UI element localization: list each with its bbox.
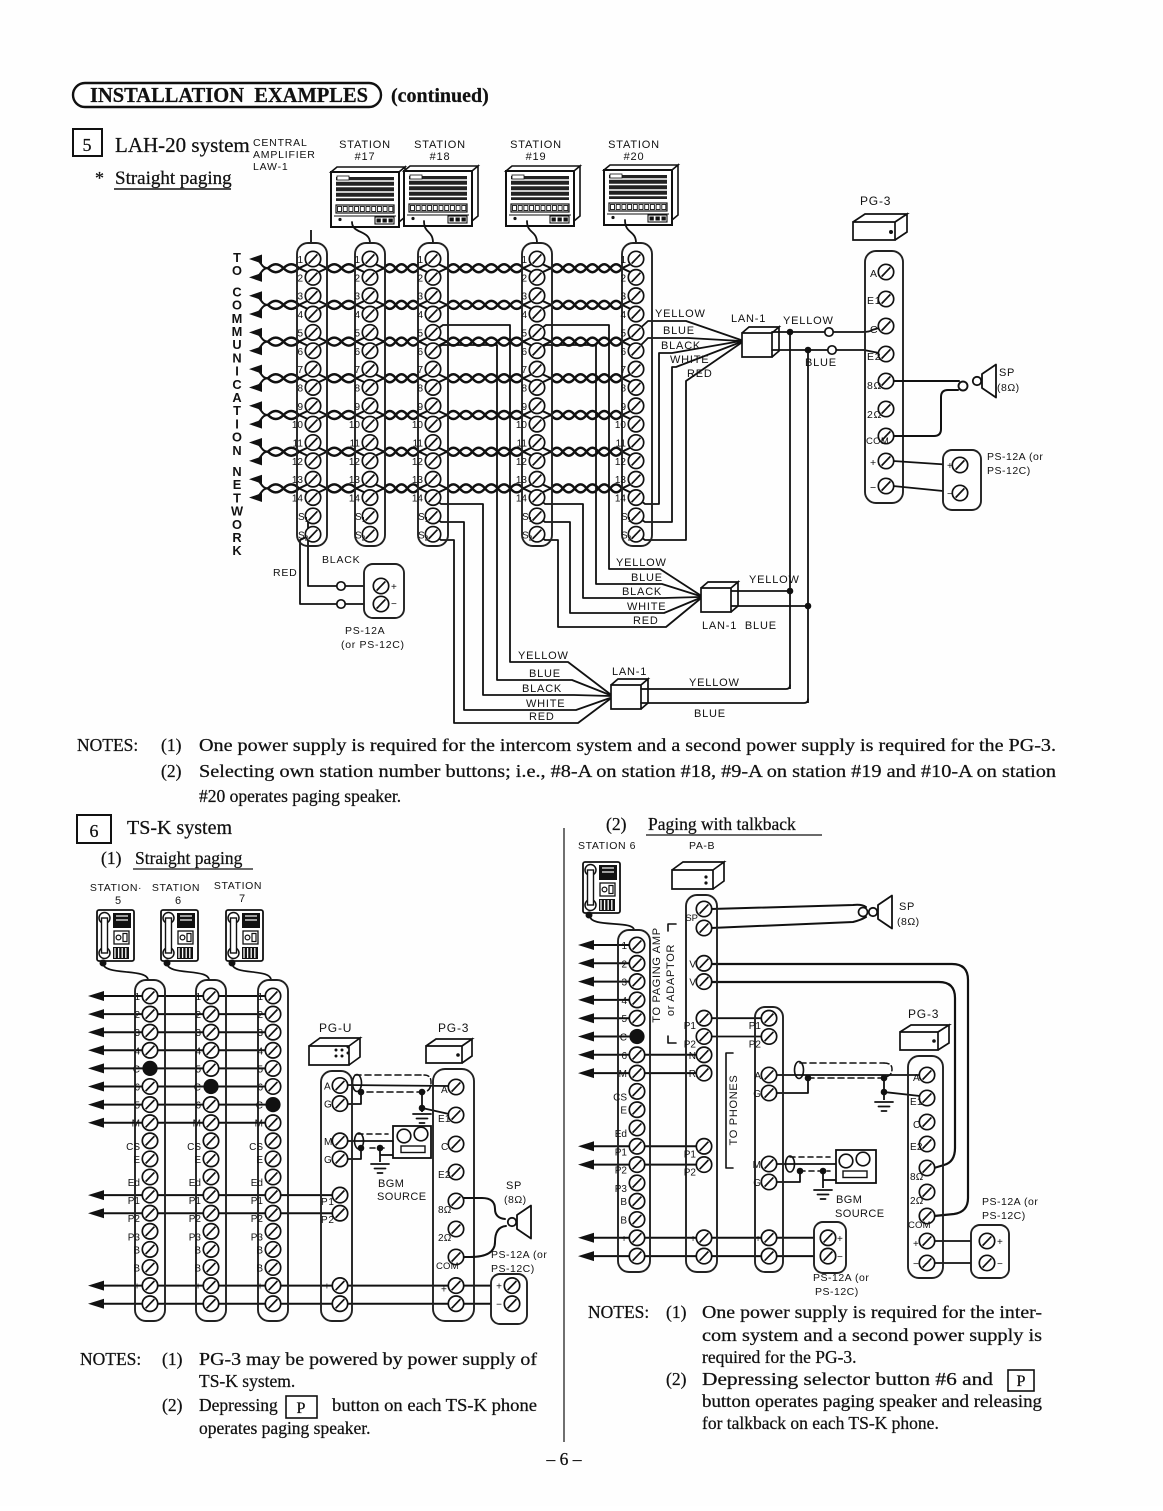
terminal minus station6 right — [621, 1248, 645, 1263]
svg-text:B: B — [256, 1245, 263, 1256]
svg-text:(1): (1) — [101, 848, 122, 868]
terminal 2 strip1 — [297, 270, 320, 285]
svg-text:2Ω: 2Ω — [867, 409, 882, 421]
terminal 5 strip5 — [620, 325, 643, 340]
terminal CS station7 — [249, 1133, 281, 1153]
svg-text:2Ω: 2Ω — [910, 1196, 924, 1207]
terminal 8 strip4 — [521, 380, 544, 395]
svg-text:5: 5 — [620, 328, 626, 339]
terminal PG-3-right 2&# — [910, 1184, 935, 1207]
arrow to communication network row 3 — [249, 291, 268, 305]
terminal 6 strip5 — [620, 343, 643, 358]
wire LAN-1 top blue output to PG-3 E2 — [772, 350, 879, 353]
svg-text:2: 2 — [621, 959, 627, 970]
svg-text:8Ω: 8Ω — [867, 380, 882, 392]
svg-text:M: M — [255, 1119, 263, 1130]
terminal PG-3-right COM — [908, 1208, 935, 1231]
svg-text:E: E — [133, 1155, 140, 1166]
terminal E station5 — [133, 1151, 157, 1166]
svg-text:11: 11 — [350, 439, 361, 450]
wire PA-B P2 to adaptor P2 — [711, 1036, 762, 1038]
svg-text:−: − — [837, 1252, 844, 1263]
terminal 1 strip2 — [354, 251, 377, 266]
svg-text:P1: P1 — [749, 1021, 762, 1032]
svg-text:P1: P1 — [189, 1196, 202, 1207]
svg-text:P2: P2 — [128, 1214, 141, 1225]
label SP (8 ohm) section 5 — [997, 367, 1020, 394]
svg-text:1: 1 — [620, 255, 626, 266]
arrow to communication network row 2 — [249, 268, 268, 282]
vertical label TO PHONES — [726, 1053, 740, 1168]
svg-text:1: 1 — [521, 255, 527, 266]
terminal adaptor P2 — [749, 1029, 777, 1051]
svg-text:or ADAPTOR: or ADAPTOR — [665, 944, 677, 1016]
svg-text:P1: P1 — [128, 1196, 141, 1207]
svg-text:−: − — [870, 482, 877, 494]
terminal 14 strip3 — [412, 490, 441, 505]
wire blue bus vertical — [807, 350, 809, 703]
svg-text:(continued): (continued) — [391, 85, 489, 107]
svg-text:+: + — [947, 461, 954, 472]
svg-text:E1: E1 — [438, 1114, 451, 1125]
wire twisted pair terminals 11-12 — [268, 447, 633, 457]
terminal 11 strip1 — [293, 435, 321, 450]
junction box LAN-1 middle — [701, 582, 738, 612]
wire PA-B P1 to adaptor P1 — [711, 1017, 762, 1019]
terminal strip paging adaptor section2 — [755, 1007, 783, 1272]
arrow to communication network row 1 — [249, 255, 268, 269]
title stadium box INSTALLATION EXAMPLES — [73, 83, 381, 107]
svg-text:+: + — [441, 1285, 447, 1296]
station unit #18 — [404, 166, 478, 226]
terminal 3 strip3 — [417, 288, 440, 303]
terminal 5 strip1 — [297, 325, 320, 340]
label PS-12A section2 right — [982, 1196, 1038, 1222]
svg-text:13: 13 — [349, 475, 361, 486]
wire strip4 terminal 5 yellow to LAN-1 middle — [537, 325, 700, 595]
svg-text:NOTES:: NOTES: — [588, 1302, 649, 1322]
terminal minus station5 — [134, 1296, 158, 1311]
vertical label TO PAGING AMP or ADAPTOR — [651, 924, 677, 1043]
terminal S2 strip1 — [298, 527, 321, 543]
svg-text:1: 1 — [417, 255, 423, 266]
svg-text:P2: P2 — [684, 1168, 697, 1179]
terminal B station6 — [194, 1260, 218, 1275]
svg-text:M: M — [619, 1069, 627, 1080]
svg-text:M: M — [132, 1119, 140, 1130]
svg-text:4: 4 — [257, 1046, 263, 1057]
svg-text:P1: P1 — [321, 1197, 335, 1208]
svg-text:3: 3 — [297, 292, 303, 303]
svg-text:8: 8 — [620, 383, 626, 394]
svg-text:PS-12A: PS-12A — [345, 625, 385, 637]
svg-text:WHITE: WHITE — [526, 698, 565, 710]
wire PG-3 8ohm to speaker — [893, 380, 959, 382]
svg-text:+: + — [621, 1234, 627, 1245]
wire cord station #20 to strip 5 — [625, 220, 636, 243]
telephone station 6 right — [583, 862, 620, 919]
terminal S1 strip3 — [418, 508, 441, 524]
svg-text:B: B — [133, 1245, 140, 1256]
terminal PA-B SP — [685, 901, 711, 924]
terminal C station5 — [133, 1061, 158, 1076]
wire twisted pair terminals 9-10 — [268, 410, 633, 420]
svg-text:14: 14 — [412, 494, 424, 505]
wire LAN-1 middle yellow output — [731, 590, 790, 592]
terminal P2 station5 — [128, 1206, 158, 1226]
terminal 10 strip1 — [292, 416, 321, 431]
terminal 11 strip3 — [413, 435, 441, 450]
svg-text:4: 4 — [417, 310, 423, 321]
svg-text:10: 10 — [292, 420, 304, 431]
label SP 8ohm section2 — [897, 901, 920, 928]
terminal 1 strip5 — [620, 251, 643, 266]
svg-text:SP: SP — [685, 913, 698, 924]
terminal 5 station5 — [134, 1097, 157, 1112]
svg-text:P1: P1 — [615, 1147, 628, 1158]
power supply PS-12A (section 5 left) — [364, 564, 404, 618]
svg-text:COM: COM — [436, 1261, 459, 1272]
terminal adaptor + — [755, 1230, 777, 1245]
terminal P3 station5 — [128, 1224, 158, 1244]
terminal 14 strip1 — [292, 490, 321, 505]
wire cord station 6 to strip B — [167, 963, 209, 980]
terminal M station6 — [193, 1115, 219, 1130]
wire LAN-1 top yellow output to PG-3 C — [772, 328, 879, 332]
svg-text:P2: P2 — [251, 1214, 264, 1225]
wire cord station #18 to strip 3 — [424, 221, 433, 243]
svg-text:BLACK: BLACK — [322, 554, 360, 566]
svg-text:13: 13 — [516, 475, 528, 486]
svg-text:5: 5 — [134, 1101, 140, 1112]
wire cord station #19 to strip 4 — [527, 221, 537, 243]
terminal PG-3 P section5 — [878, 453, 893, 468]
arrow to communication network row 9 — [249, 401, 268, 415]
svg-text:G: G — [753, 1178, 761, 1189]
arrow to communication network row 11 — [249, 438, 268, 452]
terminal 7 strip4 — [521, 361, 544, 376]
notes section 2 — [588, 1302, 1042, 1433]
terminal 6 strip4 — [521, 343, 544, 358]
labels STATION 5 6 7 — [90, 880, 262, 907]
terminal strip PG-3 section6 — [433, 1069, 474, 1321]
terminal PG-3-left 2&# — [438, 1221, 464, 1244]
terminal PG-3 O2 section5 — [878, 401, 893, 416]
terminal 5 station6 — [195, 1061, 218, 1076]
wire adaptor G to shield section2 — [776, 1079, 808, 1093]
svg-text:A: A — [324, 1082, 331, 1093]
arrow to communication network row 5 — [249, 328, 268, 342]
terminal P3 station7 — [251, 1224, 281, 1244]
svg-text:3: 3 — [134, 1028, 140, 1039]
terminal 2 strip2 — [354, 270, 377, 285]
svg-text:4: 4 — [297, 310, 303, 321]
svg-text:3: 3 — [195, 1028, 201, 1039]
arrow network row 1 section 6 — [88, 991, 266, 1001]
label PS-12A (or PS-12C) section5 right — [987, 451, 1043, 477]
terminal 14 strip5 — [615, 490, 644, 505]
wire PG-U G to shield — [346, 1093, 361, 1104]
terminal PG-3-right E2 — [910, 1136, 935, 1153]
junction dot yellow bus top — [787, 329, 794, 336]
svg-text:P2: P2 — [615, 1166, 628, 1177]
terminal adaptor G — [753, 1085, 776, 1100]
terminal C station7 — [256, 1097, 281, 1112]
terminal 2 strip4 — [521, 270, 544, 285]
wire twisted pair terminals 3-4 — [268, 300, 633, 310]
svg-text:C: C — [133, 1064, 140, 1075]
terminal 4 strip1 — [297, 306, 320, 321]
junction dot blue bus top — [805, 347, 812, 354]
svg-text:−: − — [690, 1252, 696, 1263]
svg-text:B: B — [194, 1245, 201, 1256]
wire PA-B V2 to PG-3 8ohm — [711, 982, 955, 1168]
terminal 14 strip4 — [516, 490, 545, 505]
terminal 3 station6 — [195, 1025, 218, 1040]
svg-text:YELLOW: YELLOW — [783, 315, 834, 327]
svg-text:4: 4 — [354, 310, 360, 321]
terminal adaptor &#8722; — [755, 1248, 777, 1263]
terminal S1 strip5 — [621, 508, 644, 524]
svg-text:+: + — [195, 1282, 201, 1293]
terminal E station6 — [194, 1151, 218, 1166]
terminal 6 strip3 — [417, 343, 440, 358]
svg-text:for talkback on each TS-K phon: for talkback on each TS-K phone. — [702, 1413, 939, 1433]
svg-text:14: 14 — [516, 494, 528, 505]
label (2) Paging with talkback — [606, 814, 822, 835]
svg-text:COM: COM — [908, 1220, 931, 1231]
svg-text:7: 7 — [521, 365, 527, 376]
svg-text:INSTALLATION EXAMPLES: INSTALLATION EXAMPLES — [90, 83, 368, 107]
terminal strip TS-K station 7 — [258, 980, 288, 1321]
terminal 7 strip5 — [620, 361, 643, 376]
svg-text:Depressing selector button #6: Depressing selector button #6 and — [702, 1369, 993, 1389]
terminal strip LAH-20 unit 5 — [622, 243, 652, 546]
svg-text:5: 5 — [195, 1064, 201, 1075]
terminal 8 strip3 — [417, 380, 440, 395]
svg-text:B: B — [194, 1264, 201, 1275]
svg-text:LAN-1: LAN-1 — [731, 313, 766, 325]
svg-text:PS-12A (or: PS-12A (or — [491, 1249, 547, 1261]
svg-text:10: 10 — [412, 420, 424, 431]
svg-text:5: 5 — [417, 328, 423, 339]
terminal PG-U P2 — [321, 1206, 348, 1227]
svg-text:BLUE: BLUE — [663, 325, 695, 337]
wire strip4 terminal S1 white to LAN-1 middle — [537, 516, 700, 613]
wire COM to PS-12A — [933, 1215, 935, 1217]
svg-text:P: P — [1017, 1373, 1026, 1390]
terminal S2 strip4 — [522, 527, 545, 543]
section number box 5 — [73, 129, 102, 156]
svg-text:YELLOW: YELLOW — [616, 557, 667, 569]
svg-text:−: − — [324, 1300, 331, 1311]
terminal 6 station7 — [257, 1079, 280, 1094]
arrow network row 2 section 6 — [88, 1009, 266, 1019]
section number box 6 — [77, 815, 111, 843]
terminal 9 strip1 — [297, 398, 320, 413]
svg-text:5: 5 — [354, 328, 360, 339]
terminal PG-3 COM section5 — [878, 428, 893, 443]
pigtail loop at speaker — [959, 382, 968, 391]
svg-text:2: 2 — [195, 1010, 201, 1021]
terminal adaptor P1 — [749, 1011, 777, 1033]
wire strip5 terminal S2 red to LAN-1 top — [636, 343, 741, 540]
wire PG-U G2 to shield BGM — [346, 1149, 361, 1159]
terminal B station6 — [194, 1242, 218, 1257]
terminal PG-3-left E1 — [438, 1107, 464, 1125]
label PS-12A section2 mid — [813, 1272, 869, 1298]
svg-text:+: + — [324, 1282, 331, 1293]
svg-text:NOTES:: NOTES: — [80, 1349, 141, 1369]
terminal E station6 right — [620, 1102, 644, 1117]
svg-text:P2: P2 — [749, 1040, 762, 1051]
terminal 6 strip2 — [354, 343, 377, 358]
notes section 6 — [80, 1349, 537, 1438]
svg-text:+: + — [837, 1234, 844, 1245]
svg-text:2Ω: 2Ω — [438, 1233, 452, 1244]
svg-text:PS-12C): PS-12C) — [491, 1263, 535, 1275]
arrow row 2 section2 — [578, 958, 630, 968]
terminal PG-3 A section5 — [878, 264, 893, 279]
terminal PG-3-left E2 — [438, 1164, 464, 1181]
svg-text:PG-U: PG-U — [319, 1021, 352, 1035]
wire strip5 terminal S1 white to LAN-1 top — [636, 342, 741, 522]
svg-text:5: 5 — [83, 135, 92, 155]
wire splice to PS-12A - terminal — [345, 603, 373, 605]
ground symbol BGM section2 — [814, 1190, 832, 1199]
shield drain BGM ground section2 — [820, 1168, 836, 1188]
svg-text:(or PS-12C): (or PS-12C) — [341, 639, 405, 651]
svg-text:CS: CS — [126, 1142, 140, 1153]
wire PA-B V1 to PG-3 COM — [711, 964, 968, 1216]
terminal PA-B &#8722; — [690, 1248, 712, 1263]
svg-text:1: 1 — [621, 941, 627, 952]
terminal 11 strip5 — [616, 435, 644, 450]
terminal PG-U P1 — [321, 1187, 348, 1208]
terminal PG-3-left &#8 — [441, 1296, 464, 1311]
terminal CS station6 right — [613, 1084, 645, 1104]
terminal PA-B SP2 — [696, 920, 711, 935]
power supply PS-12A section2 mid — [814, 1222, 846, 1273]
terminal PG-3 E1 section5 — [878, 291, 893, 306]
svg-text:operates paging speaker.: operates paging speaker. — [199, 1418, 371, 1438]
svg-text:(8Ω): (8Ω) — [504, 1194, 527, 1206]
wire LAN-1 bottom yellow output — [641, 685, 790, 689]
svg-text:PS-12C): PS-12C) — [982, 1210, 1026, 1222]
terminal PA-B P2 — [684, 1157, 712, 1179]
svg-text:G: G — [324, 1155, 332, 1166]
wire strip3 terminal 5 yellow to LAN-1 bottom — [433, 325, 610, 694]
svg-text:6: 6 — [257, 1083, 263, 1094]
svg-text:12: 12 — [615, 457, 627, 468]
svg-text:RED: RED — [529, 711, 555, 723]
wire PG-3 plus to PS-12A plus — [893, 461, 953, 465]
terminal B station6 right — [620, 1194, 644, 1209]
svg-text:COM: COM — [866, 436, 889, 447]
svg-text:−: − — [496, 1300, 502, 1311]
svg-text:9: 9 — [297, 402, 303, 413]
label BGM SOURCE section2 — [835, 1194, 884, 1220]
svg-text:3: 3 — [417, 292, 423, 303]
terminal P1 station6 right — [615, 1139, 645, 1159]
wire PA-B SP2 to speaker — [711, 917, 866, 928]
terminal P1 station7 — [251, 1187, 281, 1207]
svg-text:E: E — [194, 1155, 201, 1166]
junction box LAN-1 bottom — [611, 679, 648, 709]
terminal 8 strip2 — [354, 380, 377, 395]
svg-text:BGM: BGM — [378, 1178, 404, 1190]
terminal 12 strip2 — [349, 453, 378, 468]
terminal 7 strip1 — [297, 361, 320, 376]
terminal 1 station6 — [195, 988, 218, 1003]
shield dashed sheath BGM section2 — [790, 1156, 830, 1158]
wire strip5 terminal 5 yellow to LAN-1 top — [636, 321, 741, 340]
svg-text:Straight paging: Straight paging — [115, 168, 232, 189]
terminal strip TS-K station 5 — [135, 980, 165, 1321]
svg-text:12: 12 — [292, 457, 304, 468]
wire twisted pair terminals 13-14 — [268, 483, 633, 493]
wire PG-3 minus to PS-12A right minus — [934, 1262, 980, 1264]
terminal S2 strip3 — [418, 527, 441, 543]
svg-text:com system and a second power: com system and a second power supply is — [702, 1325, 1042, 1345]
svg-text:P1: P1 — [684, 1149, 697, 1160]
wire PG-U M to BGM shielded — [346, 1140, 394, 1142]
svg-text:8Ω: 8Ω — [438, 1205, 452, 1216]
terminal 1 station6 right — [621, 937, 644, 952]
svg-text:STATION: STATION — [510, 139, 562, 151]
svg-text:SOURCE: SOURCE — [835, 1208, 884, 1220]
svg-text:−: − — [195, 1300, 201, 1311]
terminal PG-U - — [324, 1296, 348, 1311]
terminal PG-3 C section5 — [878, 318, 893, 333]
arrow network row 4 section 6 — [88, 1045, 266, 1055]
wire strip1 S1 to PS-12A black — [308, 516, 337, 586]
terminal 8 strip1 — [297, 380, 320, 395]
arrow power row section2 — [578, 1251, 821, 1261]
terminal + station5 — [134, 1278, 158, 1293]
label PS-12A (or PS-12C) left — [341, 625, 405, 651]
svg-text:PS-12A (or: PS-12A (or — [813, 1272, 869, 1284]
amplifier PG-3 box section6 left — [426, 1039, 472, 1063]
svg-text:1: 1 — [354, 255, 360, 266]
svg-text:1: 1 — [257, 992, 263, 1003]
vertical label TO COMMUNICATION NETWORK — [231, 250, 244, 558]
terminal P1 station6 — [189, 1187, 219, 1207]
svg-text:C: C — [913, 1120, 920, 1131]
terminal strip PG-3 section2 — [908, 1056, 943, 1278]
svg-text:6: 6 — [297, 347, 303, 358]
svg-text:4: 4 — [134, 1046, 140, 1057]
terminal 10 strip5 — [615, 416, 644, 431]
svg-text:*: * — [95, 168, 104, 188]
label (1) Straight paging — [101, 848, 253, 869]
terminal PG-3-left C — [441, 1136, 464, 1153]
terminal CS station6 — [187, 1133, 219, 1153]
terminal 12 strip3 — [412, 453, 441, 468]
power supply PS-12A section 5 right — [943, 450, 981, 510]
wire stub strip 1 top — [310, 230, 312, 243]
shield drain BGM to ground — [377, 1145, 393, 1162]
svg-text:PG-3: PG-3 — [908, 1007, 939, 1021]
svg-text:E2: E2 — [910, 1142, 923, 1153]
svg-text:PS-12C): PS-12C) — [987, 465, 1031, 477]
wire strip4 terminal 6 blue to LAN-1 middle — [537, 345, 700, 596]
wire cord station6 to strip right — [590, 916, 634, 930]
wire PG-3 plus to PS-12A right plus — [934, 1240, 980, 1242]
wire twisted pair terminals 7-8 — [268, 373, 633, 383]
terminal adaptor M — [753, 1156, 777, 1171]
svg-text:−: − — [913, 1259, 919, 1270]
